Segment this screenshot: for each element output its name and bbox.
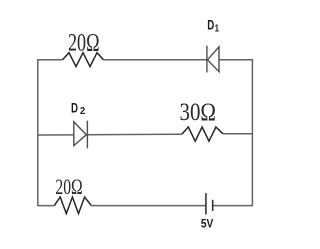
svg-text:D: D xyxy=(71,99,78,115)
resistor 20ohm bottom xyxy=(54,197,91,214)
svg-text:D: D xyxy=(207,17,214,33)
label D1 xyxy=(207,17,219,35)
wire top-right segment xyxy=(219,59,253,61)
wire bottom-left segment xyxy=(38,205,55,207)
svg-text:1: 1 xyxy=(215,24,220,35)
svg-text:20Ω: 20Ω xyxy=(55,174,82,199)
diode D2 xyxy=(74,121,88,149)
wire bottom-right segment xyxy=(213,205,253,207)
battery 5V xyxy=(206,193,213,214)
svg-text:5V: 5V xyxy=(201,219,214,231)
svg-text:20Ω: 20Ω xyxy=(68,30,100,57)
wire right vertical xyxy=(251,59,253,206)
resistor 30ohm middle xyxy=(182,127,223,141)
label D2 xyxy=(71,99,86,117)
svg-text:30Ω: 30Ω xyxy=(180,99,217,126)
wire bottom-middle segment xyxy=(91,205,206,207)
diode D1 xyxy=(207,46,219,73)
wire top-middle segment xyxy=(104,59,207,61)
wire left vertical xyxy=(37,59,39,206)
wire middle-right segment xyxy=(223,133,252,135)
svg-text:2: 2 xyxy=(80,106,86,117)
wire middle-left segment xyxy=(38,134,74,136)
resistor 20ohm top xyxy=(63,53,104,67)
wire middle-center segment xyxy=(87,133,181,136)
wire top-left segment xyxy=(38,59,63,61)
